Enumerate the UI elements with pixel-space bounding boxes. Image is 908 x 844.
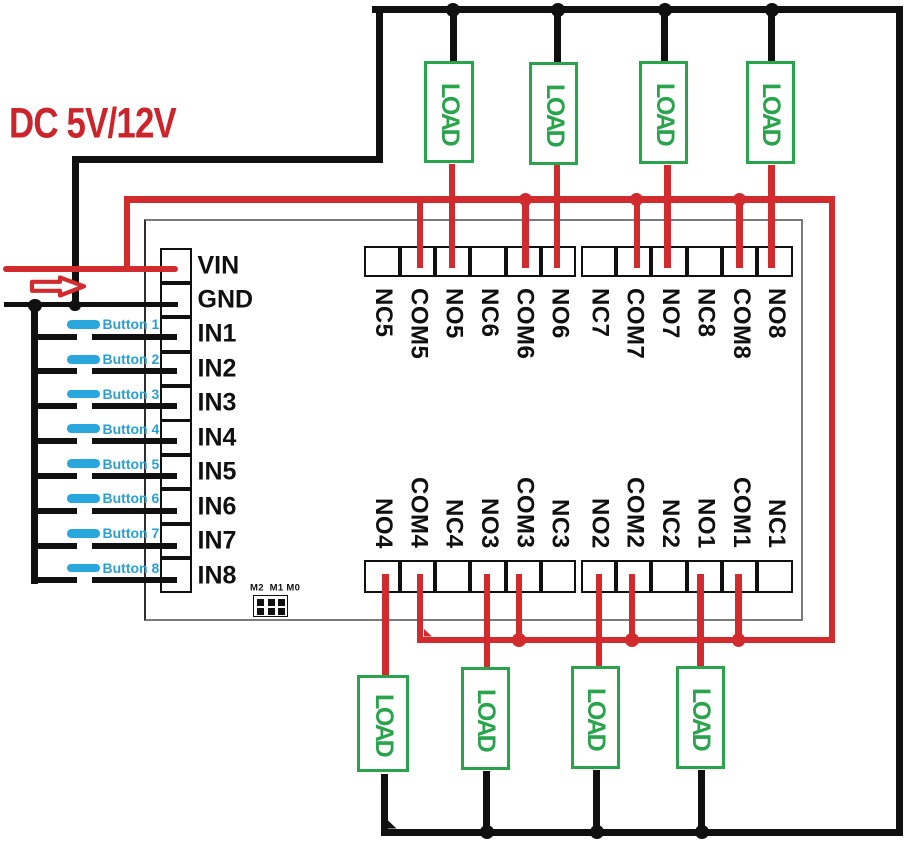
wire: LOAD5 corner fillet	[388, 820, 397, 829]
wire: upper-left horizontal run	[72, 156, 383, 163]
terminal label NC7	[581, 288, 617, 338]
wire: button 8 left contact	[31, 577, 77, 583]
button 3 actuator	[67, 390, 100, 399]
button 4 actuator	[67, 424, 100, 433]
load box LOAD5	[357, 675, 409, 772]
terminal label COM4	[400, 477, 436, 548]
terminal label NC2	[652, 499, 688, 549]
wire: LOAD to NO6	[554, 165, 561, 268]
junction: top bus / LOAD1	[446, 3, 460, 17]
wire: LOAD to NO7	[664, 165, 671, 268]
load box LOAD3	[639, 61, 688, 164]
wire: bottom return bus	[384, 829, 903, 836]
pin label GND	[198, 286, 254, 315]
wire: rail to COM8	[736, 196, 743, 268]
terminal label COM6	[506, 288, 542, 359]
label LOAD1	[431, 83, 469, 144]
terminal label NO7	[652, 288, 688, 339]
pin label IN5	[198, 458, 237, 487]
wire: COM2 drop to rail	[629, 574, 636, 643]
terminal label NO1	[687, 498, 723, 549]
junction: top rail / COM8	[733, 193, 746, 206]
wire: button 4 left contact	[31, 438, 77, 444]
label DC 5V/12V	[9, 99, 176, 148]
button 5 label	[103, 456, 160, 472]
terminal label NC8	[687, 288, 723, 338]
button 2 actuator	[67, 355, 100, 364]
junction: bottom rail / COM3	[512, 633, 526, 647]
terminal label NO8	[758, 288, 794, 339]
pin label IN7	[198, 527, 237, 556]
wire: button 3 right contact to IN3	[92, 403, 178, 409]
button 4 label	[103, 421, 160, 437]
wire: LOAD8 to bottom bus	[698, 770, 705, 832]
wire: COM4 drop to rail	[417, 574, 424, 643]
pin label VIN	[198, 251, 240, 280]
wire: top DC bus	[372, 6, 903, 13]
terminal label NO6	[542, 288, 578, 339]
wire: LOAD to NO5	[449, 164, 456, 268]
wire: NO1 to LOAD	[697, 574, 704, 667]
wire: COM3 drop to rail	[516, 574, 523, 643]
wire: GND line	[4, 302, 178, 308]
wire: button 6 right contact to IN6	[92, 508, 178, 514]
terminal label COM2	[617, 477, 653, 548]
wire: button 5 left contact	[31, 473, 77, 479]
terminal strip: relays 4-3 bottom	[364, 560, 576, 593]
junction: top bus / LOAD4	[765, 3, 779, 17]
terminal strip: relays 7-8 top	[581, 246, 793, 277]
button 3 label	[103, 386, 160, 402]
junction: top bus / LOAD3	[658, 3, 672, 17]
button 2 label	[103, 351, 160, 367]
terminal label NC5	[365, 288, 401, 338]
wire: button 1 right contact to IN1	[92, 334, 178, 340]
wire: LOAD7 to bottom bus	[593, 770, 600, 832]
terminal label COM5	[400, 288, 436, 359]
button 7 actuator	[67, 529, 100, 538]
junction: bottom rail / COM1	[732, 633, 746, 647]
terminal label NO5	[436, 288, 472, 339]
terminal label NC4	[436, 499, 472, 549]
jumper label M2 M1 M0	[250, 582, 300, 593]
button 8 label	[103, 560, 160, 576]
wire: button 3 left contact	[31, 403, 77, 409]
load box LOAD4	[746, 61, 795, 164]
button 6 label	[103, 490, 160, 506]
label LOAD2	[536, 84, 574, 145]
pin label IN1	[198, 320, 237, 349]
wire: NO3 to LOAD	[484, 574, 491, 668]
wire: NO4 to LOAD	[382, 574, 389, 676]
terminal label COM8	[723, 288, 759, 359]
junction: top rail / COM6	[519, 193, 532, 206]
terminal strip: relays 5-6 top	[364, 246, 576, 277]
wire: drop to GND line	[72, 156, 79, 307]
wire: feeder to LOAD3	[661, 10, 668, 63]
wire: button 7 right contact to IN7	[92, 543, 178, 549]
pin label IN2	[198, 354, 237, 383]
wire: +V input line to VIN	[3, 266, 178, 272]
wire: feeder to LOAD1	[450, 10, 457, 63]
label LOAD3	[646, 83, 684, 144]
wire: top bus left drop	[376, 6, 383, 163]
wire: button 8 right contact to IN8	[92, 577, 178, 583]
pin label IN3	[198, 389, 237, 418]
terminal strip: relays 2-1 bottom	[581, 560, 793, 593]
terminal label COM1	[723, 477, 759, 548]
wire: button 5 right contact to IN5	[92, 473, 178, 479]
wire: +V branch drop	[124, 196, 131, 272]
button 5 actuator	[67, 459, 100, 468]
pin label IN6	[198, 492, 237, 521]
terminal label NC6	[471, 288, 507, 338]
wire: rail to COM7	[634, 196, 641, 268]
wire: button 2 right contact to IN2	[92, 368, 178, 374]
junction: bottom bus / LOAD7	[590, 825, 604, 839]
load box LOAD1	[424, 61, 474, 163]
label LOAD6	[467, 689, 505, 750]
wire: red right rail	[829, 196, 836, 643]
junction: bottom bus / LOAD6	[480, 825, 494, 839]
wire: feeder to LOAD4	[768, 10, 775, 63]
wire: feeder to LOAD2	[554, 10, 561, 63]
terminal label NO2	[581, 498, 617, 549]
wire: button common bus	[31, 303, 38, 584]
label LOAD8	[682, 688, 720, 749]
terminal label NC1	[758, 499, 794, 549]
relay module board outline	[144, 219, 803, 621]
pin label IN4	[198, 423, 237, 452]
wire: button 7 left contact	[31, 543, 77, 549]
button 1 actuator	[67, 320, 100, 329]
button 8 actuator	[67, 564, 100, 573]
wire: COM1 drop to rail	[735, 574, 742, 643]
junction: GND/bus	[28, 299, 41, 312]
junction: GND/top-loop	[69, 300, 80, 311]
junction: top rail / COM7	[630, 193, 643, 206]
button 6 actuator	[67, 494, 100, 503]
load box LOAD7	[571, 666, 620, 769]
label LOAD4	[752, 83, 790, 144]
wire: rail to COM6	[522, 196, 529, 268]
label LOAD5	[365, 694, 403, 755]
terminal label NC3	[542, 499, 578, 549]
load box LOAD2	[529, 62, 578, 165]
load box LOAD6	[461, 667, 510, 770]
wire: LOAD to NO8	[768, 165, 775, 268]
terminal label COM3	[506, 477, 542, 548]
wire: LOAD6 to bottom bus	[483, 771, 490, 832]
junction: top bus / LOAD2	[551, 3, 565, 17]
wire: LOAD5 to bottom bus	[381, 774, 388, 836]
wire: red COM bottom rail	[417, 637, 836, 644]
junction: bottom rail / COM2	[625, 633, 639, 647]
wire: button 2 left contact	[31, 368, 77, 374]
wire: NO2 to LOAD	[596, 574, 603, 667]
load box LOAD8	[676, 666, 725, 769]
terminal label COM7	[617, 288, 653, 359]
input pin header VIN/GND/IN1-IN8	[160, 248, 192, 593]
label LOAD7	[577, 688, 615, 749]
button 7 label	[103, 525, 160, 541]
terminal label NO3	[471, 498, 507, 549]
mode jumper block M2/M1/M0	[253, 595, 288, 617]
pin label IN8	[198, 561, 237, 590]
wire: right edge return	[896, 6, 903, 836]
wire: button 6 left contact	[31, 508, 77, 514]
wire: rail to COM5	[417, 196, 424, 268]
junction: bottom bus / LOAD8	[695, 825, 709, 839]
current-flow arrow	[27, 273, 89, 300]
button 1 label	[103, 316, 160, 332]
terminal label NO4	[365, 498, 401, 549]
wire: COM4 corner fillet	[424, 629, 433, 637]
wire: button 1 left contact	[31, 334, 77, 340]
wire: button 4 right contact to IN4	[92, 438, 178, 444]
wire: red COM top rail	[124, 196, 836, 203]
